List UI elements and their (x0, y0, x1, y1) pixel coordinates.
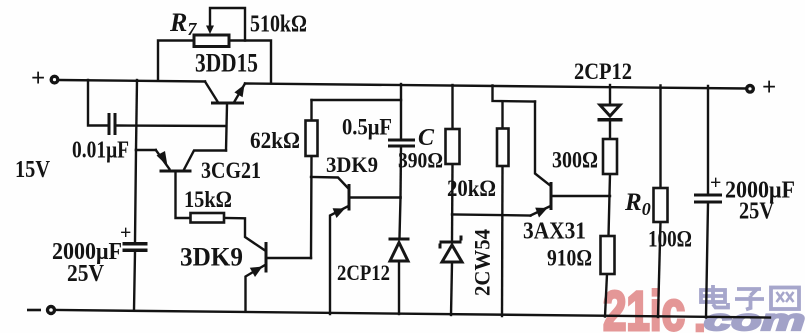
svg-text:3CG21: 3CG21 (201, 158, 261, 183)
svg-text:R0: R0 (624, 189, 651, 219)
svg-text:0.01μF: 0.01μF (72, 138, 129, 164)
svg-text:510kΩ: 510kΩ (250, 12, 307, 38)
svg-text:3DK9: 3DK9 (180, 243, 243, 272)
svg-text:+: + (762, 74, 776, 101)
svg-text:15kΩ: 15kΩ (184, 187, 232, 212)
svg-text:390Ω: 390Ω (398, 148, 443, 173)
svg-text:100Ω: 100Ω (648, 227, 692, 252)
svg-text:300Ω: 300Ω (552, 148, 598, 173)
svg-text:R7: R7 (169, 8, 197, 39)
svg-text:910Ω: 910Ω (547, 246, 592, 271)
svg-text:2CP12: 2CP12 (574, 59, 632, 84)
svg-text:+: + (710, 172, 721, 194)
svg-text:+: + (120, 222, 131, 244)
svg-text:2CP12: 2CP12 (337, 260, 390, 285)
svg-text:0.5μF: 0.5μF (342, 115, 392, 140)
svg-text:21ic: 21ic (603, 279, 685, 333)
svg-text:2CW54: 2CW54 (470, 229, 495, 296)
svg-text:3AX31: 3AX31 (523, 219, 586, 245)
svg-text:20kΩ: 20kΩ (447, 176, 496, 201)
svg-text:3DD15: 3DD15 (195, 49, 258, 78)
svg-text:+: + (31, 65, 45, 92)
svg-text:3DK9: 3DK9 (326, 152, 378, 177)
svg-text:62kΩ: 62kΩ (250, 128, 300, 153)
svg-text:25V: 25V (739, 199, 775, 225)
svg-text:25V: 25V (67, 261, 105, 287)
svg-text:15V: 15V (15, 157, 51, 183)
